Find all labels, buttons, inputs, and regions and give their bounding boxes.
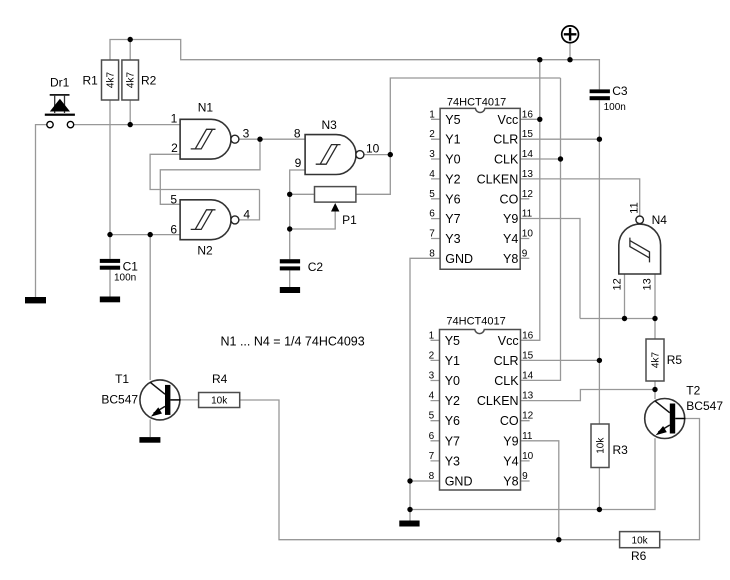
node T1 collector junction	[148, 232, 153, 237]
svg-text:10k: 10k	[596, 437, 607, 454]
capacitor C3	[590, 84, 628, 113]
svg-text:6: 6	[429, 431, 435, 442]
svg-text:Y8: Y8	[503, 252, 518, 266]
ground (C1)	[100, 297, 120, 303]
svg-text:T2: T2	[686, 383, 700, 397]
wire P1 wiper	[290, 212, 336, 230]
resistor R1	[83, 60, 119, 100]
svg-text:Y1: Y1	[445, 354, 460, 368]
svg-text:14: 14	[522, 149, 534, 160]
svg-text:Y7: Y7	[445, 434, 460, 448]
svg-text:13: 13	[522, 169, 534, 180]
svg-text:N2: N2	[197, 244, 213, 258]
IC 74HCT4017 IC1	[429, 96, 533, 269]
node power stem junction	[567, 57, 572, 62]
node R5 bottom junction	[652, 387, 657, 392]
svg-text:CO: CO	[500, 192, 519, 206]
svg-text:6: 6	[429, 209, 435, 220]
svg-text:CLK: CLK	[494, 153, 519, 167]
wire N2 output up	[239, 190, 260, 220]
wire IC2 CLKEN jog	[521, 390, 656, 401]
svg-text:CLKEN: CLKEN	[477, 172, 519, 186]
resistor R5	[646, 339, 682, 381]
svg-text:1: 1	[429, 330, 435, 341]
node R3 bottom junction	[597, 507, 602, 512]
wire Vcc vertical to both ICs	[521, 60, 540, 341]
svg-text:3: 3	[243, 127, 250, 141]
svg-text:Y0: Y0	[445, 374, 460, 388]
wire CLK vertical to IC2 CLK	[521, 78, 561, 380]
svg-text:1: 1	[171, 112, 178, 126]
wire IC1 Y9 down	[520, 219, 580, 319]
svg-text:3: 3	[429, 149, 435, 160]
svg-text:Y5: Y5	[445, 113, 460, 127]
svg-text:Y7: Y7	[445, 212, 460, 226]
push button Dr1	[45, 76, 75, 128]
wire N4 pin 12	[624, 274, 626, 319]
svg-text:4: 4	[429, 169, 435, 180]
svg-text:GND: GND	[445, 475, 473, 489]
wire P1 left	[290, 193, 315, 195]
svg-text:15: 15	[522, 350, 534, 361]
svg-text:Y3: Y3	[445, 232, 460, 246]
svg-text:Y1: Y1	[445, 133, 460, 147]
svg-text:4: 4	[429, 391, 435, 402]
svg-text:11: 11	[522, 209, 533, 220]
svg-text:Y2: Y2	[445, 172, 460, 186]
wire IC2 GND to ground	[410, 481, 440, 521]
node IC1 CLK junction	[558, 156, 563, 161]
wire R5 bottom	[654, 381, 656, 390]
wire IC2 left pin stubs 1-7	[431, 340, 440, 461]
wire IC2 Y9 down	[521, 441, 559, 540]
wire N1 out 3 to N3 pin 8	[239, 138, 305, 140]
svg-text:Y6: Y6	[445, 414, 460, 428]
nand gate N1	[171, 101, 250, 160]
svg-text:100n: 100n	[604, 102, 626, 113]
svg-text:10: 10	[522, 229, 534, 240]
wire switch to N1 pin 1	[74, 124, 180, 126]
svg-text:12: 12	[522, 411, 534, 422]
ground (T1)	[139, 437, 160, 443]
node N1 output junction	[257, 137, 262, 142]
IC 74HCT4017 IC2	[429, 316, 534, 490]
wire IC2 right pin stubs 12 10 9	[521, 421, 530, 481]
svg-text:14: 14	[522, 371, 534, 382]
wire T1 emitter to ground	[149, 420, 151, 438]
ground (switch)	[25, 297, 46, 303]
wire R5 top	[654, 319, 656, 340]
svg-text:11: 11	[522, 431, 533, 442]
svg-text:10: 10	[522, 451, 534, 462]
wire IC1 GND down	[410, 258, 440, 481]
node N4 pin12 junction	[622, 316, 627, 321]
svg-text:Y5: Y5	[445, 334, 460, 348]
svg-text:15: 15	[522, 129, 534, 140]
svg-text:CLKEN: CLKEN	[477, 394, 519, 408]
wire C1 bottom	[109, 270, 111, 297]
wire R2 bottom	[129, 100, 131, 125]
wire N4 input rail	[580, 318, 655, 320]
svg-text:Y0: Y0	[445, 153, 460, 167]
svg-text:9: 9	[522, 471, 528, 482]
svg-text:16: 16	[522, 330, 534, 341]
svg-text:Vcc: Vcc	[497, 113, 518, 127]
svg-text:5: 5	[429, 411, 435, 422]
wire switch left to ground	[36, 125, 47, 297]
node IC1 CLR junction	[597, 137, 602, 142]
resistor R6	[620, 532, 660, 563]
svg-text:N1 ... N4 = 1/4 74HC4093: N1 ... N4 = 1/4 74HC4093	[221, 335, 365, 349]
svg-text:5: 5	[170, 192, 177, 206]
wire T2 base to R6	[660, 419, 700, 540]
resistor R2	[122, 60, 157, 100]
node IC2 Y9 junction	[556, 537, 561, 542]
node P1 left junction	[287, 192, 292, 197]
wire T2 collector	[654, 390, 656, 400]
svg-text:R6: R6	[631, 549, 647, 563]
svg-text:Y9: Y9	[503, 212, 518, 226]
node P1 wiper junction	[287, 226, 292, 231]
svg-text:6: 6	[170, 223, 177, 237]
node R2 bottom junction	[128, 122, 133, 127]
svg-text:P1: P1	[342, 213, 357, 227]
svg-text:Y6: Y6	[445, 192, 460, 206]
svg-text:9: 9	[295, 156, 302, 170]
wire N2 pin 6	[110, 234, 180, 236]
wire N3 output	[364, 154, 390, 156]
svg-text:2: 2	[429, 350, 435, 361]
svg-text:Y2: Y2	[445, 394, 460, 408]
svg-text:Y3: Y3	[445, 454, 460, 468]
wire IC1 Vcc	[520, 118, 540, 120]
wire N3 output to clock rail	[356, 78, 561, 194]
node C1 top junction	[107, 232, 112, 237]
resistor R4	[199, 372, 240, 408]
svg-text:8: 8	[429, 248, 435, 259]
wire T2 emitter to ground line	[410, 438, 655, 509]
svg-text:11: 11	[628, 202, 640, 213]
node ground junction	[407, 507, 412, 512]
svg-text:Dr1: Dr1	[50, 76, 70, 90]
svg-text:12: 12	[611, 278, 623, 290]
capacitor C1	[100, 259, 138, 284]
svg-text:2: 2	[171, 141, 178, 155]
svg-text:GND: GND	[445, 252, 473, 266]
svg-text:CLR: CLR	[493, 133, 518, 147]
svg-text:9: 9	[522, 248, 528, 259]
svg-text:10k: 10k	[632, 535, 649, 546]
transistor T2 BC547	[645, 383, 724, 438]
wire power stem	[569, 43, 571, 60]
wire C2 bottom	[289, 270, 291, 287]
node IC1 Vcc junction	[537, 117, 542, 122]
svg-text:T1: T1	[115, 372, 129, 386]
svg-text:C1: C1	[123, 259, 139, 273]
node R5 top junction	[652, 316, 657, 321]
svg-text:Y8: Y8	[503, 475, 518, 489]
potentiometer P1	[315, 187, 358, 227]
svg-text:R4: R4	[212, 372, 228, 386]
nand gate N2	[170, 192, 250, 257]
wire T1 base to R4	[180, 399, 198, 401]
ground (IC GND)	[399, 521, 419, 527]
wire bottom rail from R4	[240, 400, 620, 540]
svg-text:12: 12	[522, 189, 534, 200]
capacitor C2	[280, 259, 324, 274]
svg-text:10: 10	[366, 142, 380, 156]
svg-text:CO: CO	[500, 414, 519, 428]
wire R3 bottom to emitter line	[598, 468, 600, 510]
svg-text:13: 13	[522, 391, 534, 402]
wire N3 pin 9 to C2	[290, 170, 305, 259]
wire C3 bottom down to R3 top	[598, 100, 600, 424]
svg-text:100n: 100n	[114, 273, 136, 284]
svg-text:CLR: CLR	[494, 354, 519, 368]
svg-text:2: 2	[429, 129, 435, 140]
node R2 top junction	[128, 37, 133, 42]
node IC2 CLR junction	[597, 358, 602, 363]
svg-text:R2: R2	[141, 74, 157, 88]
nand gate N4	[611, 202, 667, 290]
wire IC1 left pin stubs 1-7	[431, 119, 440, 238]
svg-text:4k7: 4k7	[126, 72, 137, 89]
svg-text:8: 8	[294, 126, 301, 140]
svg-text:C3: C3	[612, 84, 628, 98]
wire IC1 CLK	[520, 158, 560, 160]
svg-text:R3: R3	[613, 443, 629, 457]
svg-text:N1: N1	[198, 101, 214, 115]
svg-text:R1: R1	[83, 74, 99, 88]
wire IC1 CLR	[520, 138, 599, 140]
svg-text:8: 8	[429, 471, 435, 482]
svg-text:N3: N3	[322, 118, 338, 132]
ground (C2)	[280, 287, 300, 293]
svg-text:Y9: Y9	[503, 434, 518, 448]
svg-text:Y4: Y4	[503, 232, 518, 246]
wire R1 bottom to C1	[109, 100, 111, 259]
svg-text:R5: R5	[667, 353, 683, 367]
svg-text:Vcc: Vcc	[498, 334, 519, 348]
transistor T1 BC547	[101, 372, 180, 420]
svg-text:CLK: CLK	[494, 374, 519, 388]
svg-text:10k: 10k	[211, 396, 228, 407]
node N3 output junction	[388, 152, 393, 157]
nand gate N3	[294, 118, 380, 175]
wire N1 out to N2 pin 5	[160, 139, 260, 204]
svg-text:74HCT4017: 74HCT4017	[446, 316, 505, 328]
node Vcc rail junction	[537, 57, 542, 62]
svg-text:13: 13	[642, 278, 654, 290]
svg-text:4k7: 4k7	[651, 352, 662, 369]
wire N4 pin 13	[654, 274, 656, 319]
svg-text:N4: N4	[652, 213, 668, 227]
wire top supply rail	[110, 40, 599, 90]
wire IC2 CLR	[521, 359, 600, 361]
svg-text:7: 7	[429, 451, 435, 462]
svg-text:Y4: Y4	[503, 454, 518, 468]
wire R2 top stub	[129, 40, 131, 61]
node IC2 GND junction	[407, 478, 412, 483]
wire T1 collector vertical	[149, 235, 151, 380]
power symbol +V	[562, 26, 579, 43]
wire N2 out 4 to N1 pin 2	[150, 154, 259, 189]
wire IC1 CLKEN to N4 output	[520, 179, 640, 216]
svg-text:1: 1	[429, 109, 435, 120]
svg-text:3: 3	[429, 371, 435, 382]
svg-text:C2: C2	[308, 260, 324, 274]
svg-text:BC547: BC547	[101, 392, 138, 406]
svg-text:5: 5	[429, 189, 435, 200]
svg-text:74HCT4017: 74HCT4017	[447, 96, 506, 108]
svg-text:BC547: BC547	[686, 399, 723, 413]
svg-text:4k7: 4k7	[106, 72, 117, 89]
svg-text:7: 7	[429, 229, 435, 240]
wire IC1 right pin stubs 12 10 9	[520, 199, 529, 258]
resistor R3	[591, 424, 628, 468]
svg-text:4: 4	[243, 208, 250, 222]
svg-text:16: 16	[522, 109, 534, 120]
